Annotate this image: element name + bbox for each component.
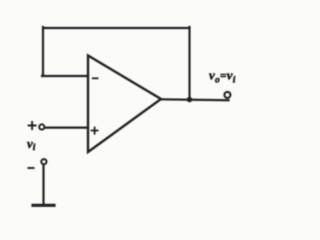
terminal vi plus (39, 124, 44, 129)
plus sign at source (29, 122, 36, 129)
wire to inverting input (42, 75, 88, 77)
wire noninverting input (45, 126, 88, 128)
wire feedback left vertical (42, 27, 44, 76)
wire to ground (42, 165, 44, 205)
wire feedback right vertical (188, 27, 190, 100)
wire feedback top (43, 27, 190, 29)
terminal vi minus (41, 159, 46, 164)
node junction at feedback/output (187, 97, 193, 103)
terminal output vo (224, 92, 230, 98)
wire output (161, 98, 229, 101)
op-amp U1 plus pin label (92, 128, 98, 134)
minus sign at source (28, 167, 33, 169)
op-amp U1 (88, 56, 161, 153)
ground (33, 204, 54, 207)
op-amp U1 minus pin label (93, 77, 98, 79)
